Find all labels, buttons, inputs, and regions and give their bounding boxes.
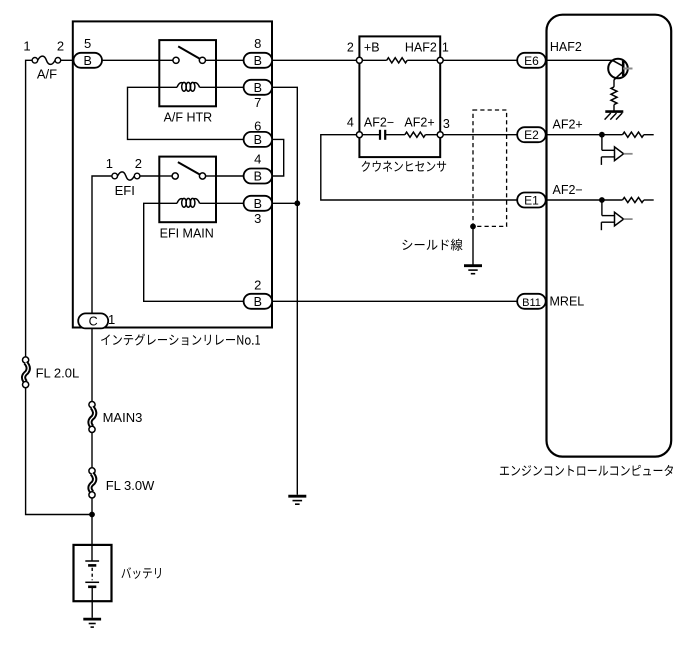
svg-text:1: 1: [23, 38, 30, 53]
sensor cell resistor: [405, 132, 426, 137]
wire coil left to pin 6: [128, 87, 244, 139]
op-amp buffer (AF2+): [599, 132, 605, 138]
battery cell 2 negative plate: [88, 585, 96, 588]
svg-text:AF2+: AF2+: [553, 117, 583, 131]
battery dashed cells: [91, 568, 93, 581]
wire junction to battery: [91, 515, 93, 562]
svg-text:E6: E6: [524, 54, 539, 68]
svg-text:8: 8: [254, 36, 261, 51]
relay EFI MAIN box: [159, 157, 216, 223]
svg-text:1: 1: [442, 41, 449, 55]
svg-text:B: B: [254, 170, 262, 184]
EFI MAIN coil: [159, 202, 177, 204]
resistor (HAF2 pulldown): [611, 87, 617, 105]
svg-text:EFI: EFI: [115, 183, 135, 198]
junction pin3/ground line: [294, 200, 300, 206]
svg-text:3: 3: [443, 117, 450, 131]
chassis ground (ECU): [605, 110, 623, 113]
wire A/F fuse to relay pin 5: [61, 59, 74, 61]
fusible link FL 3.0W: [89, 468, 95, 474]
fuse A/F: [32, 58, 38, 64]
sensor terminal 3: [437, 132, 443, 138]
wire AF2+ junction to resistor: [602, 134, 623, 136]
svg-text:B: B: [254, 81, 262, 95]
svg-text:C: C: [89, 314, 98, 328]
ground (shield): [464, 264, 482, 267]
wire pin6-pin4 bracket: [272, 139, 284, 176]
wire relay to pin 8: [216, 59, 244, 61]
wire coil to pin 3: [216, 202, 244, 204]
sensor terminal 1: [437, 57, 443, 63]
svg-text:A/F HTR: A/F HTR: [164, 111, 213, 125]
wire sensor terminal 4 to E1: [321, 135, 517, 200]
wire transistor emitter to resistor: [613, 80, 615, 87]
op-amp buffer (AF2-): [599, 197, 605, 203]
fuse EFI: [112, 173, 118, 179]
wire pin 2 to B11 (MREL): [272, 300, 517, 302]
svg-text:FL 2.0L: FL 2.0L: [36, 366, 80, 381]
svg-text:3: 3: [254, 211, 261, 226]
svg-text:1: 1: [106, 156, 113, 171]
EFI MAIN contact wires: [159, 175, 173, 177]
wire relay right contact to pin 4: [216, 175, 244, 177]
sensor cell wires: [362, 134, 380, 136]
svg-text:FL 3.0W: FL 3.0W: [106, 478, 155, 493]
connector E1: [517, 193, 546, 208]
connector B11: [517, 294, 546, 309]
wire AF2- resistor stub: [644, 199, 654, 201]
A/F HTR contact right: [199, 57, 205, 63]
ground (battery): [83, 618, 101, 621]
relay A/F HTR box: [159, 40, 216, 106]
wire MAIN3 to FL 3.0W: [91, 432, 93, 468]
svg-text:E2: E2: [524, 128, 539, 142]
air-fuel sensor box (クウネンヒセンサ): [359, 36, 440, 157]
fusible link MAIN3: [89, 402, 95, 408]
transistor Q (HAF2 driver): [608, 59, 628, 79]
wire AF2- junction to resistor: [602, 199, 623, 201]
svg-text:B: B: [254, 295, 262, 309]
svg-text:2: 2: [135, 156, 142, 171]
svg-text:1: 1: [108, 312, 115, 327]
svg-text:2: 2: [254, 277, 261, 292]
A/F HTR contact left: [173, 57, 179, 63]
svg-text:AF2−: AF2−: [553, 183, 583, 197]
wire pin 8 to sensor terminal 2: [272, 59, 356, 61]
svg-text:MREL: MREL: [550, 295, 585, 309]
sensor terminal 4: [356, 132, 362, 138]
label クウネンヒセンサ: [362, 161, 447, 172]
svg-text:5: 5: [84, 36, 91, 51]
shield wire dashed box: [473, 110, 507, 226]
svg-text:HAF2: HAF2: [405, 41, 437, 55]
svg-text:4: 4: [254, 152, 261, 167]
connector pin 7 (B): [244, 80, 273, 95]
wire resistor to chassis ground: [613, 105, 615, 111]
wire AF2+ resistor stub: [644, 134, 654, 136]
wire fuse A/F left lead + left vertical branch: [26, 60, 32, 357]
svg-text:+B: +B: [364, 41, 380, 55]
A/F HTR switch blade: [178, 46, 200, 59]
svg-text:MAIN3: MAIN3: [103, 410, 143, 425]
label バッテリ: [121, 567, 160, 579]
svg-text:AF2+: AF2+: [404, 115, 434, 129]
svg-text:B11: B11: [522, 297, 541, 309]
wire sensor terminal 3 to E2: [443, 134, 517, 136]
wire pin 7 to ground: [272, 87, 297, 495]
EFI MAIN contact left: [172, 173, 178, 179]
svg-text:B: B: [84, 54, 92, 68]
engine control computer box (エンジンコントロールコンピュータ): [547, 15, 672, 457]
battery cell 1 negative plate: [88, 564, 96, 567]
wire coil to pin 7: [216, 86, 244, 88]
connector E2: [517, 127, 546, 142]
wire pin5 to A/F HTR relay: [102, 59, 159, 61]
wire battery to ground: [91, 587, 93, 618]
wire sensor terminal 1 to E6: [443, 59, 517, 61]
wire EFI MAIN coil left to pin 2: [144, 203, 244, 301]
connector pin 3 (B): [244, 196, 273, 211]
svg-text:7: 7: [254, 95, 261, 110]
svg-text:B: B: [254, 197, 262, 211]
wire shield to ground: [472, 226, 474, 265]
fusible link FL 2.0L: [23, 357, 29, 363]
sensor heater resistor: [387, 58, 408, 63]
sensor cell capacitor: [379, 130, 381, 140]
label インテグレーションリレーNo.1: [101, 334, 260, 346]
EFI MAIN contact right: [199, 173, 205, 179]
connector E6: [517, 53, 546, 68]
svg-text:AF2−: AF2−: [364, 115, 394, 129]
svg-text:B: B: [254, 54, 262, 68]
wire EFI fuse left to connector C: [92, 176, 112, 313]
svg-text:4: 4: [347, 115, 354, 129]
label エンジンコントロールコンピュータ: [500, 465, 673, 476]
junction shield ground: [470, 224, 476, 230]
junction battery node: [89, 512, 95, 518]
wire pin 3 to ground line: [272, 202, 297, 204]
svg-text:2: 2: [347, 41, 354, 55]
sensor heater wires: [362, 59, 386, 61]
wire E2 into ECU: [546, 134, 602, 136]
A/F HTR coil: [159, 86, 177, 88]
resistor (AF2+ input): [623, 132, 644, 137]
resistor (AF2- input): [623, 197, 644, 202]
svg-text:HAF2: HAF2: [550, 40, 582, 54]
connector pin C1: [78, 313, 108, 328]
wire E1 into ECU: [546, 199, 602, 201]
svg-text:2: 2: [57, 38, 64, 53]
battery cell 2 positive plate: [85, 581, 99, 583]
A/F HTR contact wires: [159, 59, 173, 61]
svg-text:EFI MAIN: EFI MAIN: [160, 227, 214, 241]
label シールド線: [402, 239, 462, 251]
integration relay box (インテグレーションリレーNo.1): [73, 21, 272, 327]
transistor base stub: [623, 68, 632, 70]
battery box: [74, 545, 112, 601]
wire FL 3.0W to junction: [91, 498, 93, 515]
EFI MAIN switch blade: [178, 162, 200, 175]
wire C to MAIN3: [91, 328, 93, 401]
wire FL 2.0L to battery junction: [26, 388, 92, 515]
wire EFI fuse to relay: [140, 175, 160, 177]
svg-text:A/F: A/F: [37, 66, 57, 81]
ground (relay circuit): [288, 495, 306, 498]
wire E6 to transistor: [546, 59, 613, 61]
svg-text:B: B: [254, 133, 262, 147]
battery cell 1 positive plate: [85, 560, 99, 562]
sensor terminal 2: [356, 57, 362, 63]
svg-text:E1: E1: [524, 194, 539, 208]
